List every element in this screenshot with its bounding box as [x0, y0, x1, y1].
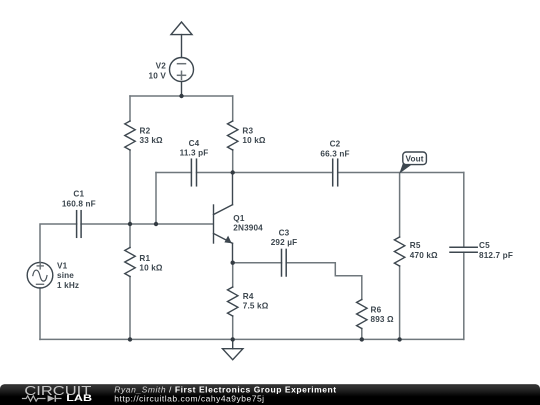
svg-text:R2: R2: [140, 127, 151, 136]
svg-text:7.5 kΩ: 7.5 kΩ: [243, 302, 269, 311]
power flag VDD: [171, 22, 192, 58]
svg-text:V2: V2: [156, 62, 167, 71]
svg-text:C5: C5: [479, 241, 490, 250]
svg-text:R3: R3: [242, 127, 253, 136]
svg-text:1 kHz: 1 kHz: [57, 281, 79, 290]
svg-text:Vout: Vout: [406, 154, 424, 163]
wire R6 bottom: [361, 329, 363, 340]
ground flag: [223, 339, 243, 359]
resistor R1: [125, 248, 135, 277]
wire R2 bottom to base node: [129, 150, 131, 224]
svg-text:C3: C3: [279, 228, 290, 237]
transistor Q1: [214, 173, 233, 263]
svg-text:http://circuitlab.com/cahy4a9y: http://circuitlab.com/cahy4a9ybe75j: [114, 394, 264, 404]
capacitor C3: [282, 249, 287, 276]
svg-text:10 kΩ: 10 kΩ: [139, 264, 163, 273]
svg-text:R6: R6: [371, 306, 382, 315]
wire R1 top lead: [129, 224, 131, 248]
svg-text:C2: C2: [330, 140, 341, 149]
wire output right drop to C5: [463, 173, 465, 248]
svg-text:10 kΩ: 10 kΩ: [242, 136, 266, 145]
resistor R6: [357, 300, 367, 329]
wire emitter node to C3: [233, 262, 282, 264]
wire R3 top lead: [232, 96, 234, 121]
node collector: [231, 170, 235, 174]
voltage source V2: [170, 58, 194, 97]
Vout flag: [399, 152, 426, 174]
wire R4 top lead: [232, 263, 234, 287]
node bottom ground: [231, 337, 235, 341]
node base / C4 branch: [154, 222, 158, 226]
svg-text:LAB: LAB: [66, 393, 92, 403]
wire R4 bottom: [232, 316, 234, 339]
node bottom R6: [360, 337, 364, 341]
resistor R5: [394, 237, 404, 266]
svg-text:66.3 nF: 66.3 nF: [320, 149, 349, 158]
footer bar: [0, 384, 540, 405]
wire V1 bottom: [39, 288, 41, 339]
svg-text:R4: R4: [243, 292, 254, 301]
svg-text:Q1: Q1: [233, 214, 245, 223]
resistor R4: [228, 287, 238, 316]
wire collector node to C2: [233, 172, 333, 174]
logo diode: [48, 395, 55, 402]
wire R3 bottom to collector node: [232, 150, 234, 173]
node bottom R1: [128, 337, 132, 341]
svg-text:sine: sine: [57, 271, 74, 280]
wire C4 branch horizontal left: [156, 172, 191, 174]
capacitor C4: [191, 159, 196, 186]
svg-text:C4: C4: [189, 139, 200, 148]
svg-text:R5: R5: [410, 241, 421, 250]
svg-text:33 kΩ: 33 kΩ: [140, 136, 164, 145]
capacitor C1: [77, 211, 82, 238]
svg-text:V1: V1: [57, 262, 68, 271]
wire C3 to R6 stepped: [286, 263, 362, 300]
resistor R2: [125, 121, 135, 150]
wire R1 bottom: [129, 277, 131, 340]
wire C1 left to V1 top: [40, 224, 77, 262]
capacitor C5: [450, 247, 477, 252]
logo squiggle resistor: [22, 396, 46, 401]
svg-text:R1: R1: [139, 254, 150, 263]
svg-text:812.7 pF: 812.7 pF: [479, 251, 513, 260]
svg-text:893 Ω: 893 Ω: [371, 315, 395, 324]
wire top rail: [130, 95, 233, 97]
svg-text:10 V: 10 V: [149, 72, 167, 81]
capacitor C2: [333, 159, 338, 186]
wire bottom rail: [40, 338, 464, 340]
wire C4 right to collector node: [197, 172, 233, 174]
svg-text:470 kΩ: 470 kΩ: [410, 251, 438, 260]
wire R5 bottom: [399, 266, 401, 339]
wire base net: [81, 223, 213, 225]
node top rail / V2: [179, 94, 183, 98]
svg-text:292 µF: 292 µF: [271, 238, 298, 247]
wire C2 to output node to C5 corner: [338, 172, 464, 174]
svg-text:160.8 nF: 160.8 nF: [62, 200, 96, 209]
wire R5 top drop: [399, 173, 401, 238]
node base / R1-R2: [128, 222, 132, 226]
resistor R3: [228, 121, 238, 150]
svg-text:C1: C1: [73, 190, 84, 199]
wire C5 bottom: [463, 252, 465, 339]
node emitter: [231, 261, 235, 265]
svg-text:11.3 pF: 11.3 pF: [180, 149, 209, 158]
wire R2 top lead: [129, 96, 131, 121]
voltage source V1: [27, 262, 53, 288]
node bottom R5: [397, 337, 401, 341]
svg-text:2N3904: 2N3904: [233, 224, 263, 233]
wire C4 branch vertical: [155, 173, 157, 225]
